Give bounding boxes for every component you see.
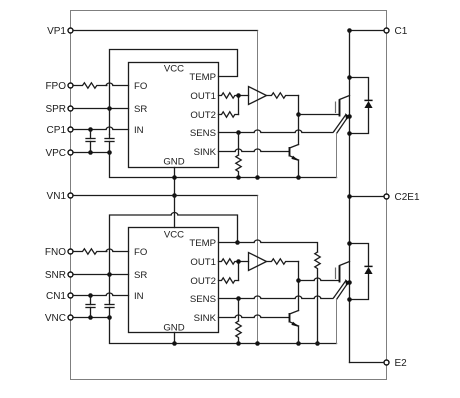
wire emitter return 2 (gray) xyxy=(336,300,338,344)
svg-text:C1: C1 xyxy=(395,26,408,37)
terminal FNO xyxy=(45,247,73,258)
wire VPC to GND rail xyxy=(110,153,337,178)
wire gate1 lead xyxy=(299,114,339,116)
wire main collector-emitter vertical xyxy=(349,31,351,363)
node diode2 top xyxy=(347,241,352,246)
wire SINK2 row with hops xyxy=(219,315,289,318)
IGBT Q-P collector diagonal xyxy=(340,96,350,100)
node C2E1 junction xyxy=(347,194,352,199)
IGBT Q-N body bar xyxy=(339,266,341,283)
capacitor C-P1 xyxy=(86,130,95,153)
transistor Q2 collector xyxy=(290,311,299,315)
diode D-P symbol xyxy=(364,100,372,108)
node VPC loop junction xyxy=(107,150,112,155)
node IGBT2 emitter xyxy=(347,280,352,285)
svg-text:VPC: VPC xyxy=(45,148,66,159)
IC U1 driver box xyxy=(129,63,219,168)
node CN1 cap junction xyxy=(88,293,93,298)
svg-text:SENS: SENS xyxy=(190,294,216,305)
svg-text:OUT1: OUT1 xyxy=(190,91,216,102)
wire OUT2 to OUT1 join xyxy=(239,96,249,115)
wire VP1 rail to corner xyxy=(73,30,258,32)
transistor Q2 base bar xyxy=(289,313,291,323)
svg-text:OUT1: OUT1 xyxy=(190,257,216,268)
node CP1 cap junction xyxy=(88,127,93,132)
op-amp buffer A1 xyxy=(249,87,267,105)
svg-text:SINK: SINK xyxy=(194,147,217,158)
wire GND2 pin of U2 xyxy=(174,333,176,344)
node VNC loop junction xyxy=(107,315,112,320)
IGBT Q-N emitter arrow outline xyxy=(334,279,350,299)
node rail sense-R junction xyxy=(236,175,241,180)
terminal VNC xyxy=(45,313,73,324)
node IGBT1 emitter xyxy=(347,114,352,119)
diode D-N branch xyxy=(350,244,369,300)
wire E2 stub xyxy=(350,362,385,364)
wire emitter return (gray) xyxy=(336,134,338,178)
wire sense-R vertical xyxy=(238,133,240,156)
capacitor C-N2 xyxy=(105,301,114,318)
svg-text:C2E1: C2E1 xyxy=(395,192,420,203)
terminal SPR xyxy=(45,104,73,115)
outer module boundary box xyxy=(71,11,387,380)
transistor Q1 base bar xyxy=(289,147,291,157)
node C1 corner xyxy=(347,28,352,33)
IGBT Q-P emitter arrow outline xyxy=(334,113,350,133)
svg-text:TEMP: TEMP xyxy=(189,238,216,249)
terminal SNR xyxy=(45,270,73,281)
resistor R-gate1 xyxy=(267,93,299,98)
node rail Q1-emitter junction xyxy=(296,175,301,180)
wire C1 stub xyxy=(350,30,385,32)
resistor R-FNO xyxy=(73,249,107,254)
IGBT Q-P gate bar (gray) xyxy=(335,102,337,114)
terminal FPO xyxy=(45,81,73,92)
svg-text:IN: IN xyxy=(134,125,144,136)
resistor R-OUT1 xyxy=(219,93,239,98)
resistor R-FPO xyxy=(73,83,107,88)
svg-text:SENS: SENS xyxy=(190,128,216,139)
wire VP branch vertical (gray) xyxy=(257,31,259,178)
resistor R-OUT2b xyxy=(219,278,239,283)
node SENS2 junction xyxy=(236,296,241,301)
capacitor C-P2 xyxy=(105,135,114,153)
wire gate2 lead with hop xyxy=(299,278,339,280)
node gate1 xyxy=(296,112,301,117)
wire CP1 row with hop xyxy=(73,127,129,130)
svg-text:VNC: VNC xyxy=(45,313,66,324)
node rail VP-branch junction xyxy=(255,175,260,180)
diode D-N symbol xyxy=(364,266,372,274)
node TEMP2 junction xyxy=(235,240,240,245)
transistor Q1 collector xyxy=(290,145,299,149)
node SR2 junction xyxy=(107,272,112,277)
node rail2 VN-branch junction xyxy=(255,341,260,346)
IGBT Q-N gate bar (gray) xyxy=(335,268,337,280)
wire VNC to GND2 rail xyxy=(110,318,337,344)
terminal VP1 xyxy=(47,26,73,37)
resistor R-gate2 xyxy=(267,259,299,264)
wire SENS row with hops xyxy=(219,130,335,133)
node SENS junction xyxy=(236,130,241,135)
svg-text:SNR: SNR xyxy=(45,270,66,281)
wire SINK row with hops xyxy=(219,149,289,152)
node VNC cap1 junction xyxy=(88,315,93,320)
wire GND pin of U1 xyxy=(174,168,176,196)
svg-text:OUT2: OUT2 xyxy=(190,110,216,121)
svg-text:VP1: VP1 xyxy=(47,26,66,37)
wire gate2 drive down xyxy=(298,262,300,311)
svg-text:OUT2: OUT2 xyxy=(190,276,216,287)
svg-text:FO: FO xyxy=(134,81,147,92)
svg-text:CN1: CN1 xyxy=(46,291,66,302)
node SR junction xyxy=(107,106,112,111)
svg-text:SINK: SINK xyxy=(194,313,217,324)
IGBT Q-P body bar xyxy=(339,100,341,117)
svg-text:VCC: VCC xyxy=(164,230,184,241)
terminal CN1 xyxy=(46,291,73,302)
node OUT join xyxy=(236,93,241,98)
node diode bottom xyxy=(347,131,352,136)
svg-text:CP1: CP1 xyxy=(47,125,67,136)
node GND rail junction xyxy=(172,175,177,180)
op-amp buffer A2 xyxy=(249,253,267,271)
wire TEMP2 to pulldown with hop xyxy=(238,240,318,252)
wire OUT2b to OUT1b join xyxy=(239,262,249,281)
wire CN1 row with hop xyxy=(73,293,129,296)
svg-text:SR: SR xyxy=(134,270,147,281)
wire FO pin with hop xyxy=(106,83,128,86)
transistor Q2 emitter with arrow xyxy=(290,322,300,327)
terminal C2E1 xyxy=(384,192,420,203)
svg-text:VN1: VN1 xyxy=(47,191,67,202)
svg-text:FO: FO xyxy=(134,247,147,258)
svg-text:SR: SR xyxy=(134,104,147,115)
wire SENS2 row with hops xyxy=(219,296,335,299)
capacitor C-N1 xyxy=(86,296,95,318)
wire FO2 pin with hop xyxy=(106,249,128,252)
svg-text:FPO: FPO xyxy=(45,81,66,92)
svg-text:GND: GND xyxy=(163,156,184,167)
svg-text:FNO: FNO xyxy=(45,247,66,258)
resistor R-sense1 xyxy=(236,155,241,175)
svg-text:VCC: VCC xyxy=(164,64,184,75)
svg-text:IN: IN xyxy=(134,291,144,302)
IGBT Q-N collector diagonal xyxy=(340,262,350,266)
resistor R-OUT2 xyxy=(219,112,239,117)
svg-text:E2: E2 xyxy=(395,358,408,369)
terminal CP1 xyxy=(47,125,73,136)
wire SPR row xyxy=(73,108,129,110)
IC U2 driver box xyxy=(129,228,219,333)
node rail2 sense-R junction xyxy=(236,341,241,346)
node GND to VN1 junction xyxy=(172,193,177,198)
svg-text:TEMP: TEMP xyxy=(189,72,216,83)
node rail2 Q2-emitter junction xyxy=(296,341,301,346)
wire TEMP2 feedback loop with hop over VCC pin xyxy=(110,213,238,301)
node GND2 rail junction xyxy=(172,341,177,346)
wire C2E1 stub xyxy=(350,196,385,198)
node R-temp2 rail junction xyxy=(315,341,320,346)
wire sense-R2 vertical xyxy=(238,299,240,322)
node diode top xyxy=(347,75,352,80)
wire VN1 rail to corner xyxy=(73,195,258,197)
diode D-P branch xyxy=(350,78,369,134)
terminal C1 xyxy=(384,26,408,37)
svg-text:GND: GND xyxy=(163,322,184,333)
terminal VN1 xyxy=(47,191,73,202)
wire SNR row xyxy=(73,274,129,276)
node diode2 bottom xyxy=(347,297,352,302)
terminal E2 xyxy=(384,358,407,369)
wire VNC row xyxy=(73,317,110,319)
transistor Q1 emitter with arrow xyxy=(290,156,300,161)
wire Q2 emitter to rail xyxy=(298,326,300,344)
resistor R-temp2 xyxy=(315,252,320,344)
wire VN branch vertical (gray) xyxy=(257,196,259,344)
wire VCC pin of U2 xyxy=(174,196,176,228)
svg-text:SPR: SPR xyxy=(45,104,66,115)
node OUTb join xyxy=(236,259,241,264)
wire VPC row xyxy=(73,152,110,154)
resistor R-sense2 xyxy=(236,321,241,341)
wire gate drive down xyxy=(298,96,300,145)
node gate2 xyxy=(296,278,301,283)
wire TEMP feedback loop xyxy=(110,50,238,135)
terminal VPC xyxy=(45,148,73,159)
node VPC cap1 junction xyxy=(88,150,93,155)
wire Q1 emitter to rail xyxy=(298,160,300,178)
resistor R-OUT1b xyxy=(219,259,239,264)
